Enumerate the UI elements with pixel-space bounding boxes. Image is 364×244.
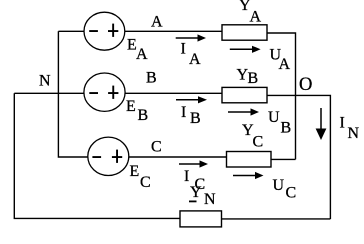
- svg-text:B: B: [138, 107, 149, 124]
- svg-text:C: C: [286, 185, 297, 202]
- svg-text:N: N: [348, 125, 360, 142]
- svg-text:B: B: [281, 119, 292, 136]
- svg-text:O: O: [299, 75, 312, 95]
- svg-text:A: A: [279, 56, 291, 73]
- svg-text:A: A: [250, 9, 262, 26]
- svg-text:I: I: [340, 115, 345, 132]
- svg-text:A: A: [189, 51, 201, 68]
- svg-text:B: B: [146, 70, 157, 87]
- svg-text:I: I: [184, 168, 189, 185]
- svg-text:I: I: [181, 41, 186, 58]
- svg-text:E: E: [130, 163, 140, 180]
- svg-text:C: C: [140, 174, 151, 191]
- svg-text:B: B: [190, 110, 201, 127]
- svg-text:I: I: [181, 104, 186, 121]
- svg-text:A: A: [151, 13, 163, 30]
- svg-text:U: U: [268, 109, 280, 126]
- svg-text:N: N: [39, 73, 51, 90]
- svg-text:C: C: [253, 134, 264, 151]
- svg-text:B: B: [248, 70, 259, 87]
- svg-text:U: U: [273, 177, 285, 194]
- svg-text:A: A: [136, 46, 148, 63]
- svg-text:N: N: [204, 191, 216, 208]
- svg-text:Y: Y: [190, 184, 202, 201]
- svg-text:E: E: [126, 98, 136, 115]
- svg-text:C: C: [151, 138, 162, 155]
